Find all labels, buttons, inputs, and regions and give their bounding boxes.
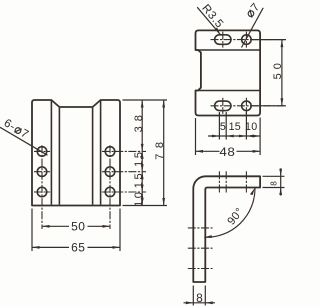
text 90deg xyxy=(225,206,246,228)
hole bottom circle xyxy=(242,101,252,111)
dimension line 50 front xyxy=(42,225,110,228)
dimension 50 top view extensions xyxy=(252,39,286,41)
centerline row2 right extended xyxy=(102,171,146,173)
centerline row2 left xyxy=(34,171,50,173)
front view left inner bend line xyxy=(58,107,60,205)
dimension line 78 xyxy=(162,100,165,206)
top view outline xyxy=(196,30,261,115)
svg-text:5: 5 xyxy=(220,121,226,133)
dimension 8 right extensions xyxy=(263,175,285,177)
centerline circle top vertical xyxy=(245,32,247,48)
svg-text:38: 38 xyxy=(133,110,145,132)
side view tick row1 xyxy=(188,227,213,229)
90 degree arc xyxy=(204,188,255,238)
svg-text:15: 15 xyxy=(133,149,145,166)
dimension extension bottom xyxy=(123,205,168,207)
side view tick slot c2 xyxy=(225,171,227,192)
dimension 38/15/15/10 extension top xyxy=(123,99,168,101)
svg-text:15: 15 xyxy=(229,121,241,133)
dimension line 8 right xyxy=(279,168,282,195)
leader 6-phi7 xyxy=(0,117,48,155)
side view tick slot c1 xyxy=(218,171,220,192)
side view tick circle xyxy=(245,171,247,192)
slot top (R3.5) xyxy=(215,35,231,45)
front view outline xyxy=(32,100,120,206)
dimension 65 extension left xyxy=(31,209,33,252)
hole A2 mid-left xyxy=(37,167,47,177)
svg-text:50: 50 xyxy=(272,59,284,79)
centerline left column xyxy=(41,145,43,229)
hole top circle xyxy=(242,35,252,45)
dimension line 48 xyxy=(196,150,261,153)
centerline row1 left xyxy=(34,150,50,152)
front view left bend line xyxy=(50,101,52,205)
centerline right column xyxy=(109,145,111,229)
svg-text:65: 65 xyxy=(71,241,85,255)
front view right bend line xyxy=(100,101,102,205)
svg-text:15: 15 xyxy=(133,171,145,188)
centerline slot bottom vertical xyxy=(222,98,224,114)
side view outline xyxy=(193,176,260,282)
svg-text:8: 8 xyxy=(196,291,203,305)
dimension line 5/15/10 xyxy=(208,135,260,138)
top view band line lower xyxy=(196,90,261,92)
svg-text:50: 50 xyxy=(71,220,85,234)
dimension line 8 bottom xyxy=(184,301,216,304)
svg-text:10: 10 xyxy=(133,189,145,206)
hole B1 top-right xyxy=(105,147,115,157)
hole B2 mid-right xyxy=(105,167,115,177)
centerline slot top vertical xyxy=(222,32,224,48)
hole B3 bottom-right xyxy=(105,187,115,197)
side view tick row3 xyxy=(188,268,213,270)
ext lines 5/15/10 xyxy=(219,112,260,155)
centerline bottom row xyxy=(211,105,287,107)
dimension line 50 top view xyxy=(281,40,284,106)
svg-text:10: 10 xyxy=(245,121,257,133)
centerline row3 right extended xyxy=(102,191,146,193)
hole A1 top-left xyxy=(37,147,47,157)
dimension 65 extension right xyxy=(119,209,121,252)
dimension 48 extension left xyxy=(195,118,197,155)
dimension 8 bottom extensions xyxy=(192,286,194,306)
svg-text:48: 48 xyxy=(219,144,235,158)
side view tick row2 xyxy=(188,247,213,249)
dimension line 38/15/15/10 xyxy=(141,100,144,206)
centerline row3 left xyxy=(34,191,50,193)
centerline row1 right extended xyxy=(102,150,146,152)
centerline circle bottom vertical xyxy=(245,98,247,114)
leader R3.5 xyxy=(197,2,225,34)
svg-text:78: 78 xyxy=(154,136,166,159)
front view right inner bend line xyxy=(92,107,94,205)
dimension line 65 xyxy=(32,246,120,249)
centerline top row xyxy=(211,39,287,41)
hole A3 bottom-left xyxy=(37,187,47,197)
top view band line upper xyxy=(196,49,261,51)
svg-text:8: 8 xyxy=(269,179,278,186)
leader phi7 top xyxy=(242,1,264,48)
slot bottom xyxy=(215,101,231,111)
